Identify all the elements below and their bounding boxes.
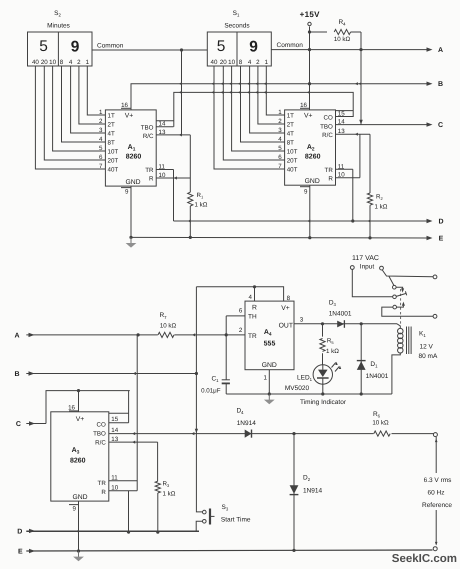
pin 6 wire 555 TH to C1 (226, 315, 245, 317)
ground (555) (268, 394, 270, 401)
switch S1 thumbwheel Seconds box (207, 32, 271, 66)
svg-text:1: 1 (264, 375, 268, 382)
svg-text:4: 4 (99, 136, 103, 143)
switch S3 Start Time pushbutton (196, 434, 214, 532)
svg-text:9: 9 (249, 39, 258, 56)
svg-text:2T: 2T (108, 122, 115, 129)
svg-text:20: 20 (220, 59, 227, 66)
wire A1 R branch down to line D (173, 178, 175, 221)
svg-text:8T: 8T (108, 140, 115, 147)
svg-text:4: 4 (278, 136, 282, 143)
svg-text:5: 5 (99, 145, 103, 152)
svg-text:10T: 10T (108, 149, 119, 156)
resistor R3 1k (157, 442, 159, 481)
svg-text:A: A (438, 47, 443, 54)
node B (top) (427, 82, 433, 86)
svg-text:1T: 1T (287, 113, 294, 120)
svg-text:Input: Input (360, 263, 375, 270)
relay contact arm (393, 295, 397, 299)
ground (A1) (130, 237, 132, 244)
svg-text:2: 2 (278, 118, 282, 125)
svg-text:Seconds: Seconds (224, 23, 250, 30)
wire 555 supply from B bus vertical (195, 287, 197, 434)
resistor R4 10k (310, 31, 328, 33)
svg-text:Start Time: Start Time (221, 517, 251, 524)
svg-text:1N914: 1N914 (237, 420, 257, 427)
svg-text:5: 5 (217, 38, 226, 55)
node A (top) (427, 47, 433, 51)
svg-text:20T: 20T (108, 158, 119, 165)
svg-text:6: 6 (278, 154, 282, 161)
resistor R6 10k (374, 430, 392, 438)
svg-text:10: 10 (228, 59, 235, 66)
svg-text:R: R (149, 176, 154, 183)
svg-text:+15V: +15V (300, 10, 320, 19)
pin 1 wire 555 GND (268, 370, 270, 394)
node E (top) (427, 236, 433, 240)
svg-text:D: D (438, 219, 443, 226)
svg-text:R: R (101, 489, 106, 496)
wire S2-2 to A1 pin2 (79, 66, 106, 124)
wire A3 R branch down to line D (128, 491, 130, 532)
diode D2 1N914 (290, 434, 299, 551)
svg-text:E: E (18, 549, 23, 556)
S1 common wire / line A to arrow (271, 49, 429, 51)
svg-text:D: D (17, 528, 22, 535)
wire line E (bottom) (26, 550, 432, 551)
pin 15 box A2 CO (336, 110, 354, 112)
pin 15 box A3 CO (109, 412, 129, 414)
svg-text:7: 7 (278, 163, 282, 170)
svg-text:8: 8 (239, 59, 243, 66)
svg-text:3: 3 (278, 127, 282, 134)
wire A1 R/C riser with R1 (189, 135, 191, 192)
wire R2 riser R/C to line E (369, 134, 371, 193)
svg-text:V+: V+ (125, 113, 134, 120)
wire A2 R branch down to line D (352, 178, 354, 221)
wire A1 GND to line E (130, 186, 132, 237)
svg-text:10: 10 (49, 59, 56, 66)
svg-text:V+: V+ (76, 416, 85, 423)
svg-text:4: 4 (69, 59, 73, 66)
svg-text:TR: TR (98, 480, 107, 487)
svg-text:Minutes: Minutes (47, 23, 71, 30)
svg-text:V+: V+ (304, 113, 313, 120)
svg-text:4: 4 (248, 59, 252, 66)
wire A2 CO to A1 TBO rail (174, 92, 353, 126)
svg-text:E: E (439, 236, 444, 243)
svg-text:2: 2 (256, 59, 260, 66)
svg-text:1N914: 1N914 (303, 488, 323, 495)
wire long vertical line A to A3 R (136, 335, 138, 491)
wire S2-10 to A1 pin5 (53, 66, 106, 151)
svg-text:14: 14 (111, 427, 118, 434)
svg-text:10T: 10T (287, 149, 298, 156)
svg-text:4T: 4T (108, 131, 115, 138)
svg-text:1N4001: 1N4001 (366, 373, 389, 380)
wire S1-8 to A2 pin4 (241, 66, 285, 142)
svg-text:B: B (14, 371, 19, 378)
svg-text:TR: TR (145, 167, 154, 174)
svg-text:12 V: 12 V (420, 344, 434, 351)
svg-text:R: R (252, 305, 257, 312)
svg-text:3: 3 (99, 127, 103, 134)
timer IC A4 555 (245, 301, 294, 370)
ground (A3) (78, 551, 80, 558)
op-amp/counter IC A1 8260 (105, 110, 156, 186)
svg-text:60 Hz: 60 Hz (428, 490, 445, 497)
wire S1-1 to A2 pin1 (266, 66, 284, 115)
svg-text:40T: 40T (287, 167, 298, 174)
svg-text:1 kΩ: 1 kΩ (195, 202, 208, 209)
svg-text:10 kΩ: 10 kΩ (372, 419, 389, 426)
relay K1 core (406, 327, 408, 355)
relay contact upper (393, 285, 397, 289)
6.3V reference output terminals (433, 433, 437, 437)
wire line C (bottom) to A3 loop (26, 423, 46, 425)
wire S1-2 to A2 pin2 (258, 66, 285, 124)
wire line A (bottom) (26, 334, 245, 336)
svg-text:10 kΩ: 10 kΩ (160, 322, 177, 329)
diode D1 1N4001 (357, 324, 366, 394)
op-amp/counter IC A3 8260 (51, 412, 109, 501)
wire A3 CO riser to loop (128, 391, 130, 423)
svg-text:6.3 V rms: 6.3 V rms (424, 477, 453, 484)
wire R4 right vertical to line C (360, 32, 362, 125)
resistor R5 1k (322, 324, 324, 337)
svg-text:40T: 40T (108, 167, 119, 174)
wire A3 V+/CO loop (46, 391, 130, 424)
svg-text:3: 3 (300, 317, 304, 324)
svg-text:5: 5 (278, 145, 282, 152)
svg-text:40: 40 (211, 59, 218, 66)
svg-text:OUT: OUT (279, 323, 293, 330)
svg-text:B: B (438, 81, 443, 88)
switch S2 thumbwheel Minutes box (28, 32, 93, 66)
svg-text:9: 9 (125, 189, 129, 196)
relay contact lower (393, 305, 397, 309)
wire S2-1 to A1 pin1 (87, 66, 105, 115)
wire line E (top) (131, 236, 429, 239)
svg-text:8: 8 (287, 295, 291, 302)
svg-text:R/C: R/C (322, 132, 333, 139)
svg-text:5: 5 (39, 38, 48, 55)
svg-text:8260: 8260 (126, 154, 142, 161)
svg-text:9: 9 (73, 506, 77, 513)
diode D3 1N4001 (337, 321, 344, 328)
svg-text:TR: TR (325, 167, 334, 174)
capacitor C1 0.01uF (222, 380, 230, 394)
svg-text:R/C: R/C (95, 439, 106, 446)
svg-text:V+: V+ (281, 305, 290, 312)
resistor R7 10k (158, 331, 175, 339)
svg-text:Common: Common (277, 42, 304, 49)
svg-text:0.01μF: 0.01μF (201, 388, 221, 395)
wire S2-20 to A1 pin6 (44, 66, 105, 160)
svg-text:1: 1 (265, 59, 269, 66)
svg-text:2T: 2T (287, 122, 294, 129)
svg-text:1: 1 (86, 59, 90, 66)
wire line B (bottom) (26, 373, 196, 375)
svg-text:9: 9 (71, 39, 80, 56)
LED1 MV5020 indicator (313, 362, 341, 394)
node D (top) (427, 219, 433, 223)
svg-text:C: C (438, 122, 443, 129)
svg-text:20T: 20T (287, 158, 298, 165)
wire S1-10 to A2 pin5 (232, 66, 285, 151)
svg-text:GND: GND (305, 178, 320, 185)
svg-text:555: 555 (264, 341, 276, 348)
wire A1 R to R/C riser (174, 177, 191, 179)
svg-text:1N4001: 1N4001 (329, 311, 352, 318)
svg-text:CO: CO (324, 114, 333, 121)
svg-text:C: C (16, 421, 21, 428)
svg-text:GND: GND (72, 494, 87, 501)
svg-text:6: 6 (239, 308, 243, 315)
wire ground rail under 555 (226, 393, 392, 395)
pin 4 wire 555 R (254, 287, 256, 301)
wire common junction down to A1 R/C (181, 50, 183, 135)
wire S2-8 to A1 pin4 (62, 66, 106, 142)
svg-text:10 kΩ: 10 kΩ (334, 36, 351, 43)
svg-text:Timing Indicator: Timing Indicator (300, 399, 347, 406)
wire S1-40 to A2 pin7 (214, 66, 285, 169)
wire 117VAC right terminal feed (382, 270, 433, 277)
S2 common wire to S1 (92, 49, 207, 51)
svg-text:R: R (328, 176, 333, 183)
wire A3 GND down through D to E (78, 501, 80, 551)
svg-text:Common: Common (97, 43, 124, 50)
svg-text:2: 2 (77, 59, 81, 66)
svg-text:7: 7 (99, 163, 103, 170)
svg-text:GND: GND (125, 179, 140, 186)
svg-text:1 kΩ: 1 kΩ (375, 204, 388, 211)
svg-text:4: 4 (249, 294, 253, 301)
pin 16 wire A3 V+ (78, 391, 80, 412)
wire V+ rail / line B (131, 84, 429, 110)
svg-text:1T: 1T (108, 113, 115, 120)
svg-text:MV5020: MV5020 (285, 385, 310, 392)
svg-text:TBO: TBO (141, 125, 154, 132)
node C (top) (427, 122, 433, 126)
wire line D (bottom) (26, 530, 199, 532)
svg-text:1 kΩ: 1 kΩ (163, 491, 176, 498)
resistor R1 1k (188, 192, 193, 206)
wire S1-20 to A2 pin6 (223, 66, 284, 160)
svg-text:4T: 4T (287, 131, 294, 138)
svg-text:117 VAC: 117 VAC (352, 255, 379, 262)
svg-text:R/C: R/C (143, 133, 154, 140)
svg-text:8T: 8T (287, 140, 294, 147)
resistor R2 1k (367, 193, 372, 205)
svg-text:40: 40 (32, 59, 39, 66)
wire 117VAC left to relay arm (352, 270, 392, 297)
relay mechanical dashed link (400, 289, 402, 326)
wire A2 GND to line E (309, 185, 311, 238)
svg-text:8: 8 (60, 59, 64, 66)
svg-text:2: 2 (239, 327, 243, 334)
svg-text:9: 9 (304, 189, 308, 196)
svg-text:80 mA: 80 mA (419, 353, 438, 360)
svg-text:TR: TR (248, 333, 257, 340)
svg-text:1 kΩ: 1 kΩ (326, 348, 339, 355)
svg-text:1: 1 (99, 109, 103, 116)
svg-text:TBO: TBO (320, 124, 333, 131)
svg-text:CO: CO (97, 421, 106, 428)
svg-text:A: A (14, 332, 19, 339)
svg-text:2: 2 (99, 118, 103, 125)
svg-text:TBO: TBO (93, 430, 106, 437)
op-amp/counter IC A2 8260 (285, 110, 336, 185)
svg-text:6: 6 (99, 154, 103, 161)
wire S1-4 to A2 pin3 (250, 66, 285, 133)
svg-text:TH: TH (248, 314, 257, 321)
svg-text:Reference: Reference (422, 502, 452, 509)
svg-text:8260: 8260 (305, 154, 321, 161)
svg-text:SeekIC.com: SeekIC.com (392, 553, 457, 565)
svg-text:1: 1 (278, 109, 282, 116)
svg-text:20: 20 (41, 59, 48, 66)
pin 3 wire 555 OUT line (294, 323, 397, 325)
diode D4 1N914 (245, 430, 252, 438)
pin 14 box A1 TBO (156, 120, 173, 122)
relay K1 coil (392, 324, 403, 394)
svg-text:15: 15 (338, 110, 345, 117)
svg-text:8260: 8260 (70, 458, 86, 465)
svg-text:GND: GND (262, 362, 277, 369)
wire S2-40 to A1 pin7 (35, 66, 105, 169)
wire S2-4 to A1 pin3 (71, 66, 106, 133)
wire A2 R/C to R riser (359, 134, 361, 178)
svg-text:15: 15 (111, 416, 118, 423)
wire line D (top) (174, 220, 430, 222)
